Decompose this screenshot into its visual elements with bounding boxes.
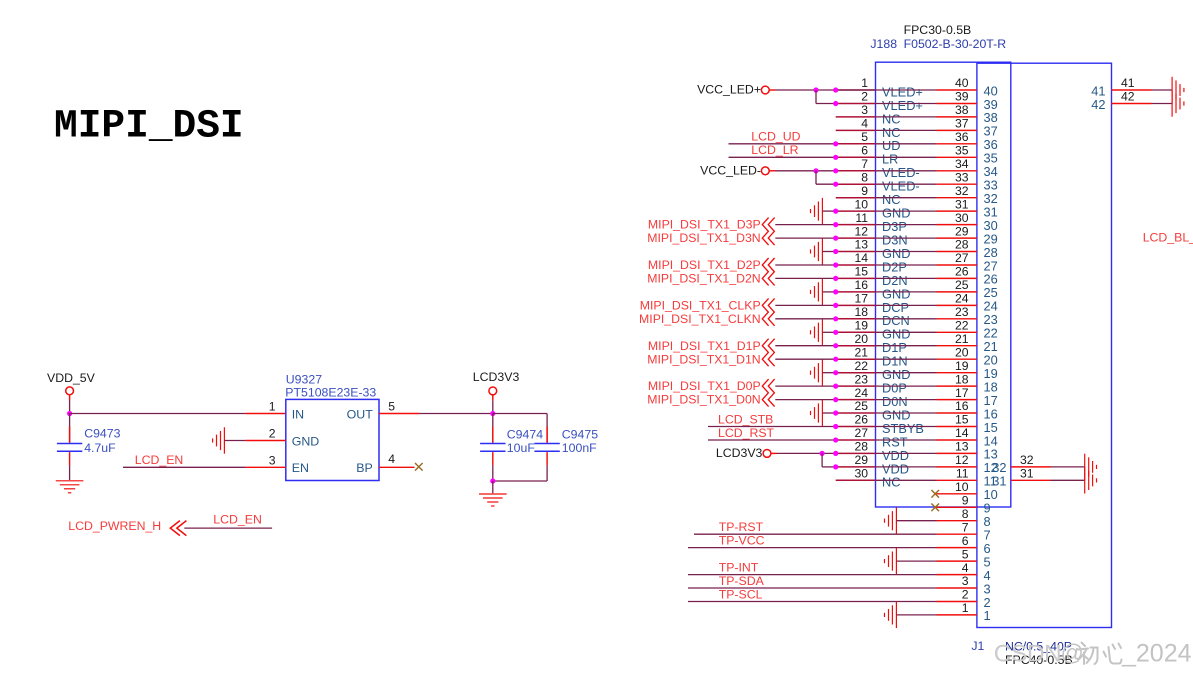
svg-text:17: 17 [854,292,868,306]
wire [708,439,836,441]
wire [419,413,493,415]
wire [775,318,835,320]
junction [833,303,838,308]
svg-text:36: 36 [955,130,969,144]
svg-text:24: 24 [955,292,969,306]
svg-text:8: 8 [861,170,868,184]
junction [833,236,838,241]
wire [775,385,835,387]
svg-text:U9327: U9327 [286,372,322,386]
wire [822,372,835,374]
svg-text:14: 14 [955,426,969,440]
wire [770,89,776,91]
svg-text:32: 32 [955,184,969,198]
svg-text:31: 31 [992,474,1006,489]
wire [1051,466,1085,468]
svg-text:@: @ [1061,640,1084,666]
wire [896,614,936,616]
svg-text:2: 2 [861,90,868,104]
svg-text:21: 21 [854,345,868,359]
pin 32 of J188 [1011,466,1051,468]
svg-text:TP-SDA: TP-SDA [719,574,765,588]
svg-text:13: 13 [854,238,868,252]
wire [821,453,823,467]
junction [833,357,838,362]
svg-text:TP-SCL: TP-SCL [719,587,763,601]
wire [492,395,494,400]
wire [123,466,246,468]
svg-text:41: 41 [1121,76,1135,90]
svg-text:3: 3 [861,103,868,117]
wire [822,210,835,212]
svg-text:LCD_EN: LCD_EN [135,453,184,467]
wire [896,520,936,522]
junction [833,222,838,227]
junction [833,397,838,402]
svg-text:6: 6 [962,534,969,548]
wire [822,331,835,333]
svg-text:MIPI_DSI_TX1_D1N: MIPI_DSI_TX1_D1N [647,352,760,366]
wire [688,587,937,589]
svg-text:5: 5 [388,400,395,414]
svg-text:C9473: C9473 [84,427,120,441]
wire [688,574,937,576]
svg-text:C9475: C9475 [562,427,598,441]
ground [811,238,823,264]
pin 1 of U9327 [246,413,286,415]
svg-text:MIPI_DSI_TX1_D1P: MIPI_DSI_TX1_D1P [648,339,761,353]
wire [771,452,777,454]
svg-text:9: 9 [861,184,868,198]
pin 31 of J188 [1011,479,1051,481]
svg-text:10: 10 [854,197,868,211]
svg-text:NC: NC [882,475,900,490]
svg-text:31: 31 [955,197,969,211]
junction [490,478,495,483]
svg-text:25: 25 [955,278,969,292]
ground [811,198,823,224]
svg-text:LCD_RST: LCD_RST [718,426,775,440]
svg-text:3: 3 [962,574,969,588]
wire [775,399,835,401]
svg-text:14: 14 [854,251,868,265]
svg-text:MIPI_DSI_TX1_CLKN: MIPI_DSI_TX1_CLKN [639,312,761,326]
junction [833,464,838,469]
svg-text:MIPI_DSI_TX1_D0P: MIPI_DSI_TX1_D0P [648,379,761,393]
svg-text:22: 22 [955,319,969,333]
svg-text:5: 5 [962,547,969,561]
svg-text:32: 32 [1020,453,1034,467]
svg-text:EN: EN [292,461,309,475]
svg-text:IN: IN [292,407,304,421]
svg-text:24: 24 [854,386,868,400]
junction [833,209,838,214]
wire [775,345,835,347]
svg-text:TP-VCC: TP-VCC [719,533,765,547]
wire [775,264,835,266]
svg-text:LCD_PWREN_H: LCD_PWREN_H [68,519,161,533]
svg-text:35: 35 [955,144,969,158]
junction [833,437,838,442]
svg-text:TP-INT: TP-INT [719,560,759,574]
svg-text:39: 39 [955,90,969,104]
svg-text:OUT: OUT [347,407,374,421]
svg-text:20: 20 [854,332,868,346]
junction [833,424,838,429]
junction [490,411,495,416]
svg-text:15: 15 [854,265,868,279]
junction [833,316,838,321]
svg-text:VDD_5V: VDD_5V [47,371,96,385]
wire [822,291,835,293]
svg-text:7: 7 [962,520,969,534]
no-connect X [415,463,423,471]
junction [833,289,838,294]
pin 41 of J1 [1112,89,1152,91]
wire [770,170,776,172]
svg-text:17: 17 [955,386,969,400]
junction [833,410,838,415]
svg-text:30: 30 [955,211,969,225]
svg-text:34: 34 [955,157,969,171]
svg-text:28: 28 [854,440,868,454]
svg-text:22: 22 [854,359,868,373]
svg-text:42: 42 [1091,97,1105,112]
wire [775,277,835,279]
pin 42 of J1 [1112,103,1152,105]
junction [833,370,838,375]
svg-text:2: 2 [269,427,276,441]
svg-text:19: 19 [955,359,969,373]
wire [822,412,835,414]
no-connect X pin 9 of J1 [931,504,939,512]
svg-text:1: 1 [984,608,991,623]
wire [69,395,71,400]
svg-text:MIPI_DSI_TX1_D3N: MIPI_DSI_TX1_D3N [647,231,760,245]
svg-text:31: 31 [1020,467,1034,481]
svg-text:J1: J1 [971,639,984,653]
svg-text:2: 2 [962,588,969,602]
svg-text:VCC_LED+: VCC_LED+ [697,83,761,97]
junction [833,141,838,146]
svg-text:33: 33 [955,170,969,184]
svg-text:29: 29 [955,224,969,238]
svg-text:16: 16 [955,399,969,413]
svg-text:MIPI_DSI: MIPI_DSI [54,104,244,149]
junction [813,168,818,173]
wire [729,156,836,158]
svg-text:J188: J188 [870,37,897,51]
ground [56,481,84,493]
junction [833,276,838,281]
svg-text:40: 40 [955,76,969,90]
wire [775,224,835,226]
svg-text:4: 4 [861,117,868,131]
svg-text:11: 11 [956,467,969,481]
svg-text:LCD_LR: LCD_LR [751,143,798,157]
junction [833,155,838,160]
junction [833,101,838,106]
svg-text:7: 7 [861,157,868,171]
svg-text:16: 16 [854,278,868,292]
svg-text:LCD3V3: LCD3V3 [473,370,520,384]
wire [493,413,547,415]
connector J188 box [876,62,1011,507]
junction [833,343,838,348]
wire [492,481,494,493]
svg-text:10uF: 10uF [507,441,536,455]
ground [479,494,507,506]
no-connect X pin 10 of J1 [931,490,939,498]
wire [775,237,835,239]
svg-text:F0502-B-30-20T-R: F0502-B-30-20T-R [904,37,1007,51]
svg-text:LCD_BL_: LCD_BL_ [1143,230,1193,244]
wire [815,171,817,184]
svg-text:15: 15 [955,413,969,427]
svg-text:18: 18 [854,305,868,319]
wire [822,251,835,253]
op-amp U9327 regulator box [286,399,379,480]
svg-text:1: 1 [861,76,868,90]
capacitor C9473 [69,414,71,443]
svg-text:30: 30 [854,467,868,481]
wire [493,480,547,482]
svg-text:LCD_UD: LCD_UD [751,130,800,144]
svg-text:CSDN: CSDN [994,641,1061,668]
wire [775,304,835,306]
svg-text:25: 25 [854,399,868,413]
svg-text:1: 1 [962,601,969,615]
svg-text:12: 12 [955,453,969,467]
junction [813,87,818,92]
connector J1 box [977,63,1112,627]
wire [1152,89,1173,91]
junction [833,330,838,335]
ground [1172,77,1184,117]
svg-text:BP: BP [356,461,373,475]
svg-text:LCD_STB: LCD_STB [718,412,773,426]
ground [885,508,897,534]
svg-text:29: 29 [854,453,868,467]
svg-text:LCD_EN: LCD_EN [213,512,262,526]
svg-text:38: 38 [955,103,969,117]
ground [885,602,897,628]
wire [729,143,836,145]
svg-text:3: 3 [269,454,276,468]
wire [896,560,936,562]
wire [775,358,835,360]
wire [694,533,937,535]
junction [820,451,825,456]
wire [688,547,937,549]
wire [688,601,937,603]
svg-text:23: 23 [955,305,969,319]
svg-text:18: 18 [955,372,969,386]
junction [833,182,838,187]
svg-text:5: 5 [861,130,868,144]
svg-text:13: 13 [955,440,969,454]
ground [811,360,823,386]
svg-text:9: 9 [962,494,969,508]
svg-text:MIPI_DSI_TX1_D2P: MIPI_DSI_TX1_D2P [648,258,761,272]
svg-text:12: 12 [854,224,868,238]
watermark hanzi chu [1078,643,1098,665]
watermark hanzi xin [1104,644,1122,664]
svg-text:PT5108E23E-33: PT5108E23E-33 [285,386,376,400]
capacitor C9474 [492,414,494,443]
ground [811,319,823,345]
capacitor C9475 [546,414,548,443]
ground [213,427,225,453]
svg-text:19: 19 [854,319,868,333]
svg-text:10: 10 [955,480,969,494]
pin 3 of U9327 [246,466,286,468]
ground [1085,454,1097,494]
ground [811,279,823,305]
wire [184,527,272,529]
ground [811,400,823,426]
svg-text:VCC_LED-: VCC_LED- [700,163,761,177]
junction [833,262,838,267]
svg-text:21: 21 [955,332,969,346]
svg-text:TP-RST: TP-RST [719,520,764,534]
wire [815,90,817,104]
svg-text:26: 26 [955,265,969,279]
svg-text:GND: GND [292,434,320,448]
junction [67,411,72,416]
svg-text:37: 37 [955,117,969,131]
svg-text:_2024: _2024 [1121,640,1192,668]
svg-text:6: 6 [861,144,868,158]
svg-text:LCD3V3: LCD3V3 [716,446,763,460]
svg-text:26: 26 [854,413,868,427]
svg-text:MIPI_DSI_TX1_D2N: MIPI_DSI_TX1_D2N [647,272,760,286]
svg-text:FPC30-0.5B: FPC30-0.5B [904,23,972,37]
wire [708,426,836,428]
svg-text:27: 27 [854,426,868,440]
svg-text:20: 20 [955,345,969,359]
svg-text:4: 4 [962,561,969,575]
svg-text:MIPI_DSI_TX1_D0N: MIPI_DSI_TX1_D0N [647,393,760,407]
junction [833,384,838,389]
svg-text:4: 4 [388,452,395,466]
pin 2 of U9327 [224,440,245,442]
svg-text:11: 11 [855,211,868,225]
svg-text:MIPI_DSI_TX1_D3P: MIPI_DSI_TX1_D3P [648,218,761,232]
svg-text:4.7uF: 4.7uF [84,441,116,455]
pin 4 of U9327 [379,466,415,468]
svg-text:28: 28 [955,238,969,252]
wire [70,413,246,415]
svg-text:23: 23 [854,372,868,386]
svg-text:C9474: C9474 [507,427,543,441]
svg-text:42: 42 [1121,90,1135,104]
svg-text:8: 8 [962,507,969,521]
svg-text:1: 1 [269,400,276,414]
svg-text:100nF: 100nF [562,441,597,455]
pin 5 of U9327 [379,413,419,415]
ground [885,548,897,574]
svg-text:MIPI_DSI_TX1_CLKP: MIPI_DSI_TX1_CLKP [640,299,761,313]
junction [833,249,838,254]
svg-text:27: 27 [955,251,969,265]
